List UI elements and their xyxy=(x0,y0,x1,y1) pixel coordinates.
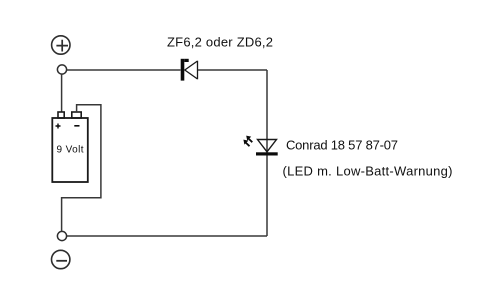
LED D2 xyxy=(256,140,278,156)
wire top rail from node to zener xyxy=(67,69,181,71)
wire bottom rail xyxy=(67,235,267,237)
node top (positive rail junction) xyxy=(57,65,66,74)
node bottom (negative rail junction) xyxy=(57,231,66,240)
wire from battery minus terminal around right side to bottom node xyxy=(62,105,101,232)
svg-text:Conrad 18 57 87-07: Conrad 18 57 87-07 xyxy=(286,138,398,153)
wire from top node to battery plus terminal xyxy=(61,74,63,112)
LED light emission arrows xyxy=(243,136,252,147)
wire right rail below LED xyxy=(266,156,268,237)
svg-text:9 Volt: 9 Volt xyxy=(57,145,84,156)
wire right rail down xyxy=(266,70,268,153)
minus terminal symbol xyxy=(52,250,70,268)
zener diode D1 ZF6,2 xyxy=(181,59,198,81)
wire top rail from zener to right corner xyxy=(198,69,267,71)
svg-text:(LED m. Low-Batt-Warnung): (LED m. Low-Batt-Warnung) xyxy=(283,163,453,178)
plus terminal symbol xyxy=(52,36,70,54)
battery BT1 9 Volt xyxy=(52,112,88,182)
svg-text:ZF6,2 oder ZD6,2: ZF6,2 oder ZD6,2 xyxy=(167,35,273,50)
